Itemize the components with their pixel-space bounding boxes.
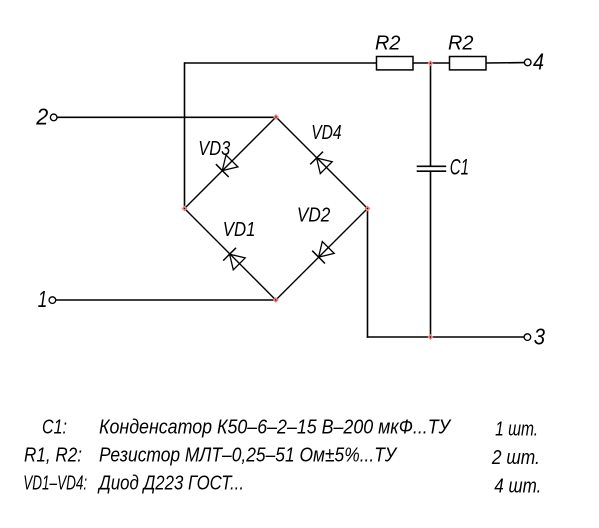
bridge edge bottom-left (VD1 branch) <box>185 209 276 301</box>
wire from terminal 1 to bridge bottom corner <box>56 299 276 301</box>
svg-text:R1, R2:: R1, R2: <box>24 445 82 467</box>
diode VD3 <box>216 155 238 177</box>
wire top rail from left vertical to R2a <box>185 62 377 64</box>
diode VD1 <box>223 248 245 270</box>
svg-text:VD2: VD2 <box>297 204 331 227</box>
diode VD2 <box>312 242 334 264</box>
svg-text:1 шт.: 1 шт. <box>495 419 538 441</box>
resistor R2 (second) <box>450 57 487 70</box>
svg-text:2 шт.: 2 шт. <box>491 447 540 469</box>
svg-text:R2: R2 <box>448 32 474 55</box>
svg-text:Конденсатор К50–6–2–15 В–200 м: Конденсатор К50–6–2–15 В–200 мкФ...ТУ <box>99 417 452 439</box>
svg-text:2: 2 <box>35 104 48 130</box>
capacitor C1 <box>417 166 447 171</box>
svg-text:C1: C1 <box>450 154 469 179</box>
svg-text:4 шт.: 4 шт. <box>494 476 541 498</box>
terminal 3 circle <box>524 334 531 341</box>
wire capacitor bottom lead <box>430 171 432 337</box>
svg-text:VD4: VD4 <box>311 121 341 144</box>
diode VD4 <box>310 152 332 174</box>
svg-text:3: 3 <box>534 323 545 349</box>
bridge edge top-right (VD4 branch) <box>276 117 368 209</box>
svg-text:VD1: VD1 <box>223 218 256 241</box>
terminal 1 circle <box>49 297 56 304</box>
svg-text:C1:: C1: <box>42 417 67 439</box>
svg-text:VD1–VD4:: VD1–VD4: <box>23 473 87 495</box>
svg-text:VD3: VD3 <box>198 137 230 160</box>
bridge edge top-left (VD3 branch) <box>185 117 277 209</box>
node bridge left corner <box>182 206 188 212</box>
wire from terminal 2 to bridge top corner <box>57 116 276 118</box>
svg-text:1: 1 <box>38 286 48 312</box>
node bridge top corner <box>273 114 279 120</box>
svg-text:Диод Д223 ГОСТ...: Диод Д223 ГОСТ... <box>97 473 244 495</box>
wire from R2b to terminal 4 <box>486 62 525 64</box>
wire bridge right corner down <box>367 209 369 338</box>
wire capacitor top lead <box>430 62 432 166</box>
junction node capacitor to bottom rail <box>428 334 434 340</box>
svg-text:Резистор МЛТ–0,25–51 Ом±5%...Т: Резистор МЛТ–0,25–51 Ом±5%...ТУ <box>99 445 398 467</box>
node bridge bottom corner <box>273 297 279 303</box>
terminal 2 circle <box>50 114 57 121</box>
resistor R2 (first) <box>377 57 414 70</box>
svg-text:R2: R2 <box>375 32 401 55</box>
bridge edge bottom-right (VD2 branch) <box>276 209 368 301</box>
wire bottom rail to terminal 3 <box>367 336 524 338</box>
node bridge right corner <box>365 206 371 212</box>
wire left vertical drop to bridge left corner <box>184 62 186 208</box>
terminal 4 circle <box>524 59 531 66</box>
wire between R2a and R2b <box>413 62 450 64</box>
junction node between R2a and R2b <box>428 60 434 66</box>
svg-text:4: 4 <box>533 49 544 75</box>
